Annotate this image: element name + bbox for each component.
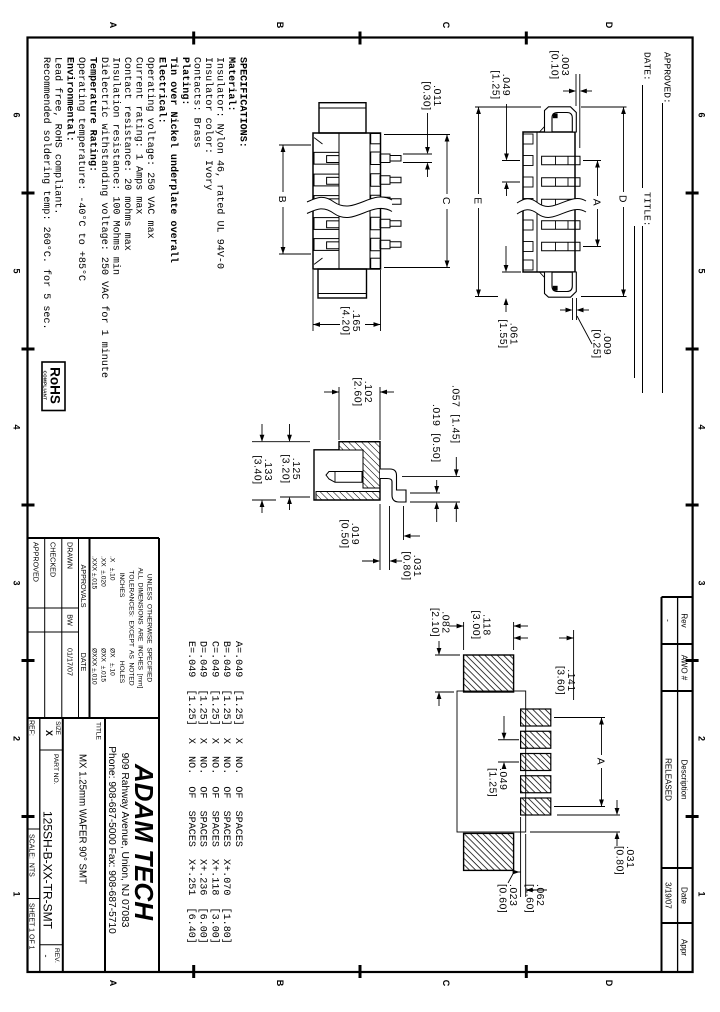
svg-text:D: D <box>617 195 628 203</box>
footprint dim .023/[0.60] <box>514 871 521 873</box>
svg-text:C=.049 [1.25] X NO. OF SP: C=.049 [1.25] X NO. OF SPACES X+.118 [3.… <box>208 641 220 944</box>
svg-text:SHEET 1 OF 1: SHEET 1 OF 1 <box>28 903 35 950</box>
svg-text:Material:: Material: <box>225 57 237 112</box>
svg-text:HOLES: HOLES <box>118 661 125 684</box>
view1 contact slots <box>314 152 339 164</box>
svg-text:[0.80]: [0.80] <box>614 846 625 875</box>
svg-text:6: 6 <box>12 112 22 117</box>
svg-text:.125: .125 <box>290 458 301 480</box>
svg-text:[1.60]: [1.60] <box>524 884 535 913</box>
svg-text:A=.049 [1.25] X NO. OF SP: A=.049 [1.25] X NO. OF SPACES <box>232 641 244 847</box>
svg-text:C: C <box>441 22 451 29</box>
view3 contact pin <box>326 472 362 483</box>
svg-text:[0.25]: [0.25] <box>591 329 602 358</box>
svg-text:INCHES: INCHES <box>118 573 125 599</box>
svg-text:A: A <box>595 758 606 765</box>
svg-text:[0.80]: [0.80] <box>401 551 412 580</box>
svg-text:[3.40]: [3.40] <box>252 455 263 484</box>
svg-text:PART NO.: PART NO. <box>52 754 59 785</box>
svg-text:4: 4 <box>12 424 22 429</box>
view3 dim .019/[0.50] top <box>410 492 440 494</box>
svg-text:COMPLIANT: COMPLIANT <box>43 371 48 401</box>
view3 dim .031/[0.80] <box>403 506 405 540</box>
footprint pin pads <box>521 709 551 726</box>
svg-text:3/19/07: 3/19/07 <box>664 882 673 909</box>
svg-text:Operating temperature: -40°C t: Operating temperature: -40°C to +85°C <box>75 57 87 281</box>
svg-text:Contact resistance: 20 mohms m: Contact resistance: 20 mohms max <box>121 57 133 251</box>
svg-text:Plating:: Plating: <box>179 57 191 105</box>
view3 dim .133/[3.40] <box>252 499 276 501</box>
svg-text:2: 2 <box>697 736 707 741</box>
svg-text:SIZE: SIZE <box>54 721 61 735</box>
svg-text:.133: .133 <box>262 459 273 481</box>
svg-text:MX 1.25mm WAFER 90° SMT: MX 1.25mm WAFER 90° SMT <box>77 754 88 884</box>
svg-text:A: A <box>108 980 118 987</box>
svg-text:[3.00]: [3.00] <box>470 610 481 639</box>
view1 corner chamfers <box>314 138 322 144</box>
svg-text:RELEASED: RELEASED <box>664 758 673 801</box>
svg-text:BW: BW <box>66 614 75 626</box>
svg-text:.X ±.10: .X ±.10 <box>109 556 116 581</box>
svg-text:[2.10]: [2.10] <box>429 608 440 637</box>
svg-text:SPECIFICATIONS:: SPECIFICATIONS: <box>237 57 248 148</box>
svg-text:Recommended soldering temp: 26: Recommended soldering temp: 260°C. for 5… <box>40 57 52 330</box>
svg-text:Lead free, RoHS compliant.: Lead free, RoHS compliant. <box>52 57 64 215</box>
view2 bottom notches <box>523 156 533 166</box>
svg-text:[3.60]: [3.60] <box>555 666 566 695</box>
svg-text:1: 1 <box>12 891 22 896</box>
svg-text:Phone: 908-687-5000 Fax: 908-6: Phone: 908-687-5000 Fax: 908-687-5710 <box>106 746 117 934</box>
approvals table <box>89 538 91 718</box>
svg-text:[0.10]: [0.10] <box>549 50 560 79</box>
view2 dim E <box>475 106 541 108</box>
svg-text:.061: .061 <box>508 323 519 345</box>
svg-text:B: B <box>275 980 285 987</box>
svg-text:.019: .019 <box>349 523 360 545</box>
svg-text:.019 [0.50]: .019 [0.50] <box>430 404 441 463</box>
svg-text:[1.55]: [1.55] <box>497 319 508 348</box>
svg-text:.003: .003 <box>559 54 570 76</box>
svg-text:Insulator: Nylon 46, rated UL: Insulator: Nylon 46, rated UL 94V-0 <box>213 57 225 269</box>
svg-text:CHECKED: CHECKED <box>49 542 58 577</box>
view2 dim .003/[0.10] <box>579 74 581 148</box>
svg-text:ADAM TECH: ADAM TECH <box>129 763 159 921</box>
svg-text:01/17/07: 01/17/07 <box>66 648 75 676</box>
svg-text:.011: .011 <box>431 85 442 107</box>
svg-text:-: - <box>41 955 51 958</box>
svg-text:Rev: Rev <box>680 613 689 627</box>
view3 dim .125/[3.20] <box>252 441 310 443</box>
view1 internal lines <box>338 133 340 269</box>
svg-text:TOLERANCES: EXCEPT AS NOTED: TOLERANCES: EXCEPT AS NOTED <box>128 570 135 685</box>
svg-text:D=.049 [1.25] X NO. OF SP: D=.049 [1.25] X NO. OF SPACES X+.236 [6.… <box>197 641 209 944</box>
svg-text:[1.25]: [1.25] <box>487 768 498 797</box>
view1 dim B <box>279 144 311 146</box>
svg-text:.XXX ±.015: .XXX ±.015 <box>91 556 98 590</box>
svg-text:.057 [1.45]: .057 [1.45] <box>450 385 461 444</box>
svg-text:RoHS: RoHS <box>48 367 63 404</box>
svg-text:3: 3 <box>697 580 707 585</box>
svg-text:Electrical:: Electrical: <box>156 57 168 124</box>
svg-text:-: - <box>664 619 673 622</box>
svg-text:.165: .165 <box>350 310 361 332</box>
svg-text:.062: .062 <box>534 884 545 906</box>
footprint dim .082/[2.10] <box>435 654 460 656</box>
svg-text:TITLE: TITLE <box>95 722 102 741</box>
svg-text:909 Rahway Avenue, Union, NJ 0: 909 Rahway Avenue, Union, NJ 07083 <box>119 753 130 928</box>
svg-text:A: A <box>591 199 602 206</box>
svg-text:Insulator color: Ivory: Insulator color: Ivory <box>202 57 214 190</box>
svg-text:.049: .049 <box>497 768 508 790</box>
svg-text:[0.60]: [0.60] <box>497 884 508 913</box>
view2 dim .049/[1.25] <box>502 160 520 162</box>
svg-text:5: 5 <box>12 268 22 273</box>
revision table <box>662 596 693 598</box>
view1 top notches <box>371 152 381 165</box>
svg-text:.082: .082 <box>440 611 451 633</box>
svg-text:SCALE: NTS: SCALE: NTS <box>28 834 35 877</box>
svg-text:.023: .023 <box>507 884 518 906</box>
svg-text:ØXXX ±.010: ØXXX ±.010 <box>91 648 98 685</box>
svg-text:ØX ±.10: ØX ±.10 <box>109 648 116 676</box>
view2 internal line <box>536 132 538 272</box>
svg-text:[0.50]: [0.50] <box>339 519 350 548</box>
footprint left pad <box>464 655 514 692</box>
view2 left clip <box>545 107 577 132</box>
svg-text:Dielectric withstanding voltag: Dielectric withstanding voltage: 250 VAC… <box>98 57 110 378</box>
view1 dim C <box>384 134 450 136</box>
svg-text:Tin over Nickel underplate ove: Tin over Nickel underplate overall <box>167 57 179 263</box>
svg-text:[4.20]: [4.20] <box>340 306 351 335</box>
svg-text:UNLESS OTHERWISE SPECIFIED: UNLESS OTHERWISE SPECIFIED <box>146 574 153 683</box>
svg-text:Insulation resistance: 100 Moh: Insulation resistance: 100 Mohms min <box>109 57 121 275</box>
company cell <box>104 718 106 972</box>
svg-text:5: 5 <box>697 268 707 273</box>
svg-text:E: E <box>472 197 483 204</box>
view2 pins <box>542 156 580 165</box>
zone tick marks <box>686 192 699 195</box>
view2 dim D <box>581 106 627 108</box>
size / part no / rev row <box>62 718 64 972</box>
svg-text:APPROVED: APPROVED <box>32 542 41 582</box>
view2 dim A <box>583 160 601 162</box>
svg-text:.031: .031 <box>411 555 422 577</box>
svg-text:D: D <box>604 22 614 29</box>
svg-text:APPROVALS: APPROVALS <box>79 564 88 607</box>
view3 hatched top wall <box>339 442 380 488</box>
svg-text:D: D <box>604 980 614 987</box>
svg-text:APPROVED:: APPROVED: <box>662 52 673 104</box>
svg-text:Current rating: 1 Amps max: Current rating: 1 Amps max <box>133 57 145 215</box>
svg-text:B=.049 [1.25] X NO. OF SP: B=.049 [1.25] X NO. OF SPACES X+.070 [1.… <box>220 641 232 944</box>
svg-text:Environmental:: Environmental: <box>63 57 75 142</box>
svg-text:Contacts: Brass: Contacts: Brass <box>190 57 201 148</box>
footprint body outline <box>457 691 526 832</box>
svg-text:[2.60]: [2.60] <box>352 377 363 406</box>
view2 break lines <box>517 198 586 217</box>
view3 smt lead <box>380 469 406 502</box>
svg-text:DATE: DATE <box>79 653 88 672</box>
svg-text:2: 2 <box>12 736 22 741</box>
view3 housing outline <box>314 442 380 500</box>
svg-text:AWO #: AWO # <box>680 655 689 681</box>
svg-text:REF:: REF: <box>28 720 35 736</box>
footprint dim .141/[3.60] <box>573 630 575 700</box>
view1 pins <box>380 154 390 163</box>
view3 dim .019/[0.50] bottom <box>389 506 391 570</box>
view1 dim .011/[0.30] <box>403 153 432 155</box>
view1 break lines <box>307 197 392 218</box>
footprint dim A <box>554 717 605 719</box>
view1 left tab <box>319 103 366 133</box>
svg-text:3: 3 <box>12 580 22 585</box>
view2 right clip <box>545 272 577 297</box>
svg-text:Operating voltage: 250 VAC max: Operating voltage: 250 VAC max <box>144 57 156 239</box>
svg-text:B: B <box>275 22 285 29</box>
svg-text:.118: .118 <box>481 614 492 636</box>
svg-text:REV.: REV. <box>53 948 60 963</box>
svg-text:ALL DIMENSIONS ARE INCHES: ALL DIMENSIONS ARE INCHES [mm] <box>137 568 144 689</box>
svg-text:E=.049 [1.25] X NO. OF SP: E=.049 [1.25] X NO. OF SPACES X+.251 [6.… <box>185 641 197 944</box>
svg-text:TITLE:: TITLE: <box>642 192 653 227</box>
svg-text:Appr: Appr <box>680 939 689 956</box>
svg-text:Date: Date <box>680 887 689 904</box>
view2 dim .009/[0.25] <box>576 298 578 320</box>
svg-text:C: C <box>441 980 451 987</box>
svg-text:.009: .009 <box>601 333 612 355</box>
svg-text:[0.30]: [0.30] <box>421 81 432 110</box>
view3 dim .102/[2.60] <box>379 387 381 440</box>
view3 dim .057/[1.45] <box>410 501 460 503</box>
svg-text:DRAWN: DRAWN <box>66 542 75 569</box>
svg-text:B: B <box>276 196 287 203</box>
svg-text:[1.25]: [1.25] <box>490 70 501 99</box>
title block outline <box>28 537 160 539</box>
view3 cavity lines <box>314 449 363 451</box>
svg-text:4: 4 <box>697 424 707 429</box>
footprint dim .049/[1.25] <box>498 739 519 741</box>
svg-text:.XX ±.020: .XX ±.020 <box>100 556 107 587</box>
svg-text:A: A <box>108 22 118 29</box>
RoHS logo <box>42 362 65 411</box>
svg-text:.102: .102 <box>362 381 373 403</box>
view3 hatched back wall <box>316 492 380 501</box>
footprint dim .031/[0.80] <box>557 814 620 816</box>
svg-text:125SH-B-XX-TR-SMT: 125SH-B-XX-TR-SMT <box>41 811 55 930</box>
svg-text:[3.20]: [3.20] <box>280 454 291 483</box>
footprint dim .062/[1.60] <box>525 834 527 897</box>
svg-text:6: 6 <box>697 112 707 117</box>
view1 right tab <box>318 269 367 298</box>
footprint right pad <box>464 833 514 870</box>
svg-text:X: X <box>44 730 54 736</box>
svg-text:C: C <box>440 197 451 205</box>
svg-text:.049: .049 <box>500 74 511 96</box>
svg-text:Temperature Rating:: Temperature Rating: <box>86 57 98 172</box>
svg-text:Description: Description <box>680 759 689 799</box>
view1 dim .165/[4.20] <box>380 270 382 331</box>
svg-text:DATE:: DATE: <box>642 52 653 81</box>
svg-text:.141: .141 <box>565 669 576 691</box>
svg-text:ØXX ±.015: ØXX ±.015 <box>100 648 107 682</box>
view1 body <box>313 133 381 269</box>
view2 dim .061/[1.55] <box>502 271 521 273</box>
footprint dim .118/[3.00] <box>513 622 515 650</box>
svg-text:.031: .031 <box>624 846 635 868</box>
view2 body <box>523 132 575 272</box>
svg-text:1: 1 <box>697 891 707 896</box>
scale/sheet bottom row <box>28 828 40 830</box>
